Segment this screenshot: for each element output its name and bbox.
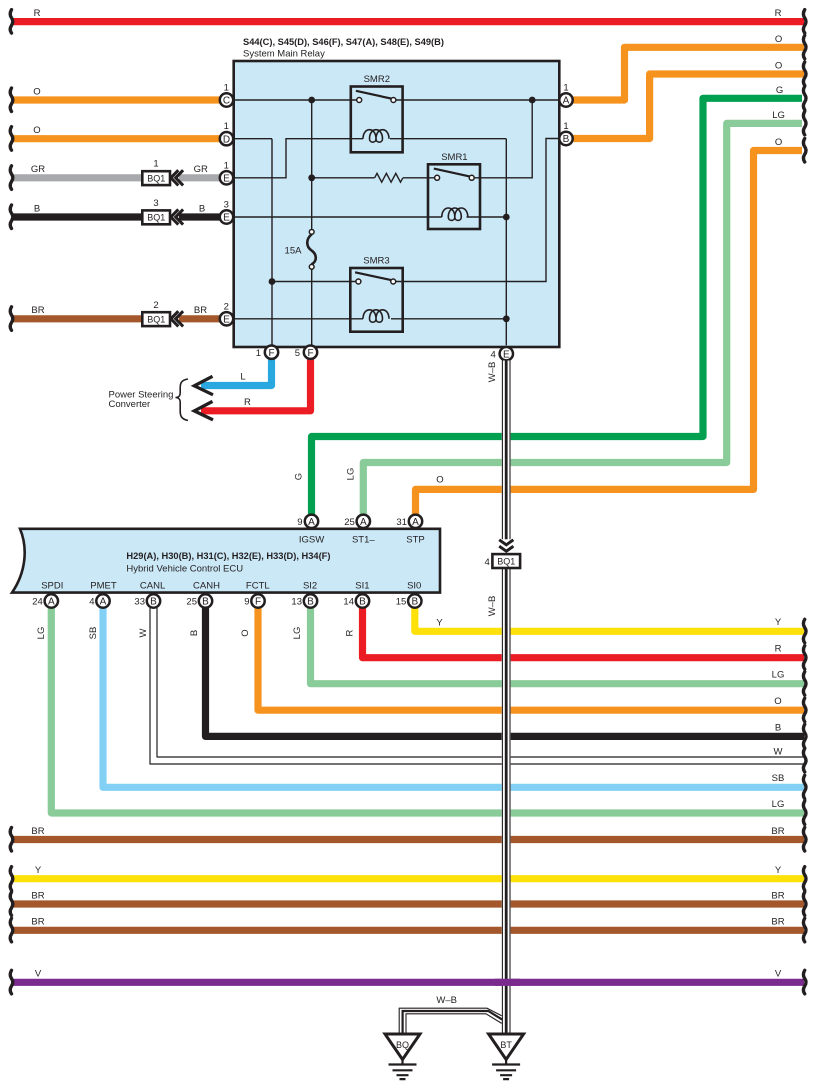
svg-text:E: E xyxy=(223,314,230,325)
break O C left xyxy=(10,88,13,112)
pin E2 xyxy=(220,312,233,325)
break GR left xyxy=(10,166,13,190)
svg-text:9: 9 xyxy=(297,517,302,528)
svg-text:LG: LG xyxy=(772,670,785,681)
wire O from pin B xyxy=(573,74,804,139)
svg-text:1: 1 xyxy=(224,121,229,132)
svg-text:31: 31 xyxy=(396,517,407,528)
relay pins right xyxy=(559,83,572,146)
svg-text:1: 1 xyxy=(563,121,568,132)
wire R power steering xyxy=(201,359,311,411)
break BR2 left xyxy=(10,892,13,916)
wire SB from PMET xyxy=(103,608,804,787)
wire G to IGSW xyxy=(312,98,803,514)
wire fuse to F5 xyxy=(311,269,313,345)
svg-text:B: B xyxy=(359,597,366,608)
wire SMR3 coil to node xyxy=(391,318,506,320)
svg-text:SMR1: SMR1 xyxy=(441,152,467,163)
svg-text:4: 4 xyxy=(485,557,490,568)
resistor to SMR1 xyxy=(403,177,435,179)
svg-text:O: O xyxy=(775,137,782,148)
chevron down on W-B xyxy=(499,540,513,551)
svg-text:BR: BR xyxy=(31,917,44,928)
svg-text:9: 9 xyxy=(244,597,249,608)
svg-text:GR: GR xyxy=(194,164,208,175)
svg-text:LG: LG xyxy=(36,627,47,640)
wire GR to pin E1 xyxy=(13,174,220,181)
SMR3 switch xyxy=(355,272,396,284)
svg-text:R: R xyxy=(775,8,782,19)
relay SMR1 box xyxy=(428,164,480,229)
svg-text:1: 1 xyxy=(153,159,158,170)
svg-text:LG: LG xyxy=(346,468,357,481)
break W right xyxy=(803,749,806,773)
svg-text:G: G xyxy=(776,85,783,96)
svg-text:SMR2: SMR2 xyxy=(364,74,390,85)
break O D left xyxy=(10,127,13,151)
break B CANH right xyxy=(803,724,806,748)
svg-text:BR: BR xyxy=(31,305,44,316)
wire Y from SI0 xyxy=(415,608,804,631)
pin C xyxy=(220,93,233,106)
svg-text:25: 25 xyxy=(186,597,197,608)
svg-text:Y: Y xyxy=(436,618,443,629)
svg-text:SPDI: SPDI xyxy=(41,581,63,592)
svg-text:SI0: SI0 xyxy=(407,581,421,592)
break B left xyxy=(10,205,13,229)
svg-text:B: B xyxy=(199,203,205,214)
svg-text:W: W xyxy=(774,747,783,758)
ground BQ xyxy=(385,1034,420,1079)
break O A right xyxy=(803,35,806,59)
Hybrid Vehicle Control ECU box xyxy=(12,529,440,593)
svg-text:14: 14 xyxy=(343,597,354,608)
fuse contact circles xyxy=(309,230,314,235)
break SB right xyxy=(803,775,806,799)
connector BQ1 on W-B xyxy=(492,554,520,568)
svg-text:A: A xyxy=(100,597,107,608)
svg-text:G: G xyxy=(294,473,305,480)
pin A9 IGSW xyxy=(305,515,318,528)
wire O to pin D xyxy=(13,135,220,142)
svg-text:R: R xyxy=(775,644,782,655)
relay pins bottom xyxy=(256,346,513,361)
break R left xyxy=(10,10,13,33)
svg-text:1: 1 xyxy=(256,348,261,359)
SMR2 switch xyxy=(356,91,396,103)
svg-text:1: 1 xyxy=(563,83,568,94)
svg-text:2: 2 xyxy=(224,301,229,312)
svg-text:W–B: W–B xyxy=(487,596,498,617)
svg-text:A: A xyxy=(412,517,419,528)
svg-text:E: E xyxy=(503,349,510,360)
ground BT xyxy=(489,1034,524,1079)
svg-text:IGSW: IGSW xyxy=(299,535,324,546)
wire BR row3 xyxy=(13,927,804,934)
break V right xyxy=(803,970,806,994)
svg-text:3: 3 xyxy=(153,198,158,209)
pin E1 xyxy=(220,171,233,184)
wire R top full width xyxy=(13,18,804,25)
svg-text:33: 33 xyxy=(134,597,145,608)
svg-text:SI2: SI2 xyxy=(303,581,317,592)
relay pins left xyxy=(220,83,233,326)
svg-text:E: E xyxy=(223,213,230,224)
wire E1 to step xyxy=(234,139,363,178)
wire SMR3 contact to B xyxy=(396,139,559,282)
wire SMR2 coil to node xyxy=(390,138,506,140)
svg-text:W–B: W–B xyxy=(436,995,457,1006)
wire B to pin E3 xyxy=(13,213,220,220)
break Y row left xyxy=(10,867,13,891)
break BR2 right xyxy=(803,892,806,916)
break LG SPDI right xyxy=(803,801,806,825)
pin A xyxy=(559,93,572,106)
wire LG to ST1- xyxy=(363,123,802,514)
svg-text:BR: BR xyxy=(194,305,207,316)
svg-text:O: O xyxy=(33,87,40,98)
wire LG from SPDI xyxy=(51,608,804,813)
svg-text:BR: BR xyxy=(31,891,44,902)
connector BQ1 on BR wire xyxy=(142,300,183,327)
fuse 15A xyxy=(307,234,316,264)
wire SMR1 coil to node xyxy=(467,216,507,218)
pin E3 xyxy=(220,210,233,223)
wire Y row xyxy=(13,875,804,882)
svg-text:15: 15 xyxy=(396,597,407,608)
svg-text:BT: BT xyxy=(500,1040,512,1050)
svg-text:B: B xyxy=(34,203,40,214)
svg-text:F: F xyxy=(268,348,274,359)
svg-text:4: 4 xyxy=(89,597,94,608)
svg-text:24: 24 xyxy=(32,597,43,608)
wire B from CANH xyxy=(206,608,805,736)
wire O to STP xyxy=(416,151,803,515)
connector BQ1 on GR wire xyxy=(142,159,183,186)
svg-text:O: O xyxy=(240,629,251,636)
svg-text:B: B xyxy=(202,597,209,608)
svg-text:A: A xyxy=(48,597,55,608)
wire fuse vertical from C row xyxy=(311,100,313,229)
svg-text:B: B xyxy=(563,134,570,145)
break BR3 right xyxy=(803,918,806,942)
svg-text:Y: Y xyxy=(775,865,782,876)
resistor R1 xyxy=(375,173,403,182)
svg-text:V: V xyxy=(35,969,42,980)
svg-text:V: V xyxy=(775,969,782,980)
svg-text:B: B xyxy=(775,723,781,734)
break R SI1 right xyxy=(803,646,806,670)
svg-text:2: 2 xyxy=(153,300,158,311)
break BR left xyxy=(10,307,13,331)
power steering converter xyxy=(109,372,251,421)
svg-text:BQ1: BQ1 xyxy=(147,213,165,223)
svg-text:4: 4 xyxy=(491,349,496,360)
break BR3 left xyxy=(10,918,13,942)
svg-text:Hybrid Vehicle Control ECU: Hybrid Vehicle Control ECU xyxy=(126,564,243,575)
BQ ground branch wires xyxy=(399,1008,502,1034)
wire LG from SI2 xyxy=(311,608,805,684)
arrow R xyxy=(194,401,213,420)
svg-text:BR: BR xyxy=(771,891,784,902)
svg-text:CANH: CANH xyxy=(193,581,220,592)
svg-text:A: A xyxy=(308,517,315,528)
svg-text:BQ1: BQ1 xyxy=(147,315,165,325)
svg-text:SI1: SI1 xyxy=(355,581,369,592)
pin D xyxy=(220,132,233,145)
junction dots xyxy=(308,97,315,104)
break V left xyxy=(10,970,13,994)
svg-text:13: 13 xyxy=(291,597,302,608)
svg-text:F: F xyxy=(255,597,261,608)
break O B right xyxy=(803,62,806,86)
wire E2 to SMR3 coil xyxy=(234,318,363,320)
svg-text:H29(A), H30(B), H31(C), H32(E): H29(A), H30(B), H31(C), H32(E), H33(D), … xyxy=(126,551,330,561)
svg-text:B: B xyxy=(411,597,418,608)
svg-text:3: 3 xyxy=(224,200,229,211)
svg-text:L: L xyxy=(240,372,245,383)
svg-text:FCTL: FCTL xyxy=(246,581,270,592)
svg-text:E: E xyxy=(223,173,230,184)
pin E4 xyxy=(500,347,513,360)
svg-text:25: 25 xyxy=(344,517,355,528)
break BR1 left xyxy=(10,828,13,852)
SMR1 switch xyxy=(434,169,474,181)
svg-text:W–B: W–B xyxy=(487,362,498,383)
svg-text:O: O xyxy=(774,696,781,707)
svg-text:A: A xyxy=(563,96,570,107)
svg-text:A: A xyxy=(360,517,367,528)
connector BQ1 on B wire xyxy=(142,198,183,225)
wire SMR3 switch row xyxy=(272,281,356,283)
svg-text:GR: GR xyxy=(31,164,45,175)
svg-text:LG: LG xyxy=(292,627,303,640)
break BR1 right xyxy=(803,828,806,852)
pin F1 xyxy=(265,346,278,359)
svg-text:BR: BR xyxy=(31,826,44,837)
arrow L xyxy=(194,376,213,395)
svg-text:C: C xyxy=(223,96,230,107)
pin B xyxy=(559,132,572,145)
relay SMR2 box xyxy=(351,87,403,153)
svg-text:BQ1: BQ1 xyxy=(497,556,515,566)
svg-text:BQ: BQ xyxy=(396,1040,409,1050)
svg-text:ST1–: ST1– xyxy=(352,535,375,546)
break O STP right xyxy=(803,139,806,163)
brace xyxy=(176,379,189,421)
svg-text:Converter: Converter xyxy=(109,399,151,410)
svg-text:BR: BR xyxy=(771,826,784,837)
svg-text:R: R xyxy=(345,629,356,636)
svg-text:1: 1 xyxy=(224,83,229,94)
svg-text:W: W xyxy=(138,628,149,637)
wire W from CANL outline xyxy=(150,608,804,764)
svg-text:5: 5 xyxy=(295,348,300,359)
svg-text:1: 1 xyxy=(224,160,229,171)
SMR3 coil xyxy=(363,310,389,322)
wire V row xyxy=(13,979,804,986)
svg-text:BQ1: BQ1 xyxy=(147,174,165,184)
wire BR row1 xyxy=(13,836,804,843)
wire node vertical to E4 xyxy=(505,139,507,346)
svg-text:Y: Y xyxy=(35,865,42,876)
wire SMR1 contact to A node xyxy=(474,100,532,178)
wire O from pin A xyxy=(573,47,804,100)
wire R from SI1 xyxy=(363,608,805,658)
svg-text:D: D xyxy=(223,134,230,145)
ECU pins top xyxy=(297,515,425,546)
wire resistor row xyxy=(312,177,375,179)
svg-text:Y: Y xyxy=(775,617,782,628)
wire BR to pin E2 xyxy=(13,315,220,322)
SMR1 coil xyxy=(442,208,468,220)
svg-text:SMR3: SMR3 xyxy=(363,256,389,267)
break LG SI2 right xyxy=(803,672,806,696)
break Y right xyxy=(803,619,806,643)
svg-text:B: B xyxy=(307,597,314,608)
SMR2 coil xyxy=(363,130,389,142)
wire O from FCTL xyxy=(258,608,804,710)
svg-text:O: O xyxy=(436,475,443,486)
break R right xyxy=(803,10,806,33)
svg-text:System Main Relay: System Main Relay xyxy=(243,49,325,60)
wire D to corner xyxy=(234,138,272,140)
svg-text:LG: LG xyxy=(772,799,785,810)
svg-text:PMET: PMET xyxy=(90,581,117,592)
wire E3 to SMR1 coil xyxy=(234,216,442,218)
W-B ground wire band xyxy=(485,361,521,1035)
svg-text:B: B xyxy=(189,630,200,636)
svg-text:STP: STP xyxy=(406,535,424,546)
svg-text:CANL: CANL xyxy=(140,581,165,592)
svg-text:SB: SB xyxy=(88,627,99,640)
wire vertical D-F1 xyxy=(271,139,273,346)
break Y row right xyxy=(803,867,806,891)
relay SMR3 box xyxy=(350,268,402,332)
svg-text:S44(C), S45(D), S46(F), S47(A): S44(C), S45(D), S46(F), S47(A), S48(E), … xyxy=(243,37,444,47)
svg-text:F: F xyxy=(307,348,313,359)
break O FCTL right xyxy=(803,698,806,722)
svg-text:15A: 15A xyxy=(285,246,303,257)
svg-text:B: B xyxy=(150,597,157,608)
svg-text:R: R xyxy=(34,8,41,19)
wire V overlay over W-B xyxy=(495,979,520,986)
svg-text:O: O xyxy=(33,125,40,136)
wire L power steering xyxy=(201,359,272,385)
svg-text:R: R xyxy=(244,397,251,408)
ECU pins bottom xyxy=(32,581,421,608)
svg-text:O: O xyxy=(775,61,782,72)
wire O to pin C xyxy=(13,96,220,103)
break LG right xyxy=(803,111,806,134)
svg-text:O: O xyxy=(775,34,782,45)
svg-text:LG: LG xyxy=(772,110,785,121)
pin F5 xyxy=(304,346,317,359)
wire BR row2 xyxy=(13,900,804,907)
pin A31 STP xyxy=(409,515,422,528)
pin A25 ST1- xyxy=(357,515,370,528)
break G right xyxy=(803,86,806,110)
wire SMR2 right contact to A xyxy=(396,99,559,101)
wire C row to SMR2 left contact xyxy=(234,99,357,101)
System Main Relay box xyxy=(234,61,560,347)
svg-text:BR: BR xyxy=(771,917,784,928)
svg-text:SB: SB xyxy=(772,773,785,784)
